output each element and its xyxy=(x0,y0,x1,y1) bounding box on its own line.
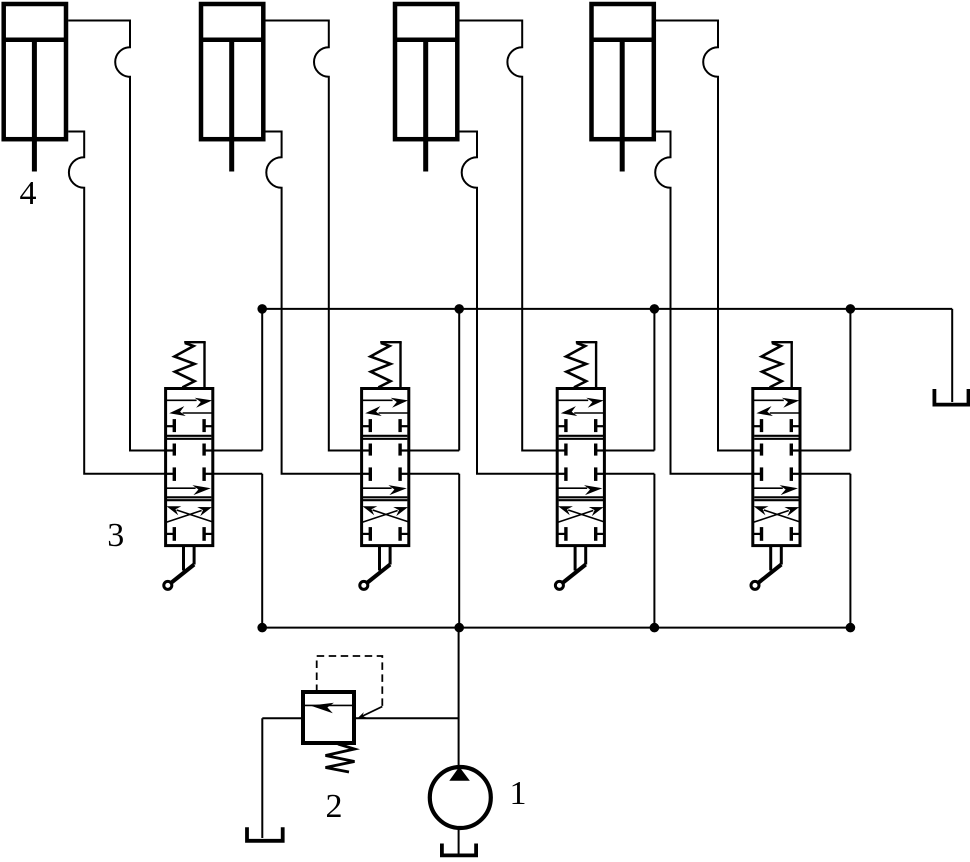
svg-text:1: 1 xyxy=(510,775,527,812)
svg-text:4: 4 xyxy=(20,175,37,212)
svg-text:2: 2 xyxy=(326,788,343,825)
svg-text:3: 3 xyxy=(107,517,124,554)
